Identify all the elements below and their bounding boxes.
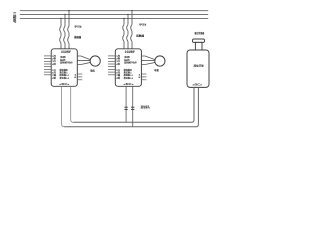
connector on probe wire 1 [124,107,127,109]
node: tap dots group 1 [60,10,69,19]
wire: U2 probe wire 1 [125,86,127,122]
svg-text:«DC»: «DC» [192,83,202,87]
wire: U2 probe wire 2 [132,86,134,126]
wire: bus line L1 [20,10,208,12]
breaker QF1 + contactor KM1 phase wires [60,11,69,49]
controller U2 spare right pins [141,74,146,80]
svg-text:液位探头: 液位探头 [141,104,150,109]
svg-text:空气开关: 空气开关 [75,25,82,29]
controller U1 left pins [44,56,51,75]
controller U2 left pins [108,56,115,75]
svg-text:液位传感器: 液位传感器 [194,31,204,35]
controller U2 box [115,49,141,87]
wire: U1 DC+ down to upper bus [71,86,74,122]
level sensor neck [195,42,202,50]
wire: U1 to motor M1 [77,56,90,65]
svg-text:«DC»: «DC» [59,82,70,86]
wire: lower bus to sensor [64,87,198,126]
node: tap dots group 2 [123,10,132,19]
controller U1 pin labels [52,54,78,80]
level sensor flange [193,39,205,42]
breaker QF2 + contactor KM2 phase wires [123,11,132,49]
controller U2 pin labels [116,54,142,80]
controller U1 box [51,49,77,87]
wire: U1 DC- down to lower bus [62,86,65,126]
level sensor tank body [187,50,209,87]
connector on probe wire 2 [131,107,134,109]
motor M2 [155,56,165,66]
wire: upper bus to sensor [73,87,194,122]
controller U1 spare right pins [77,74,82,80]
svg-text:«DC»: «DC» [123,82,134,86]
svg-text:接触器: 接触器 [73,35,82,39]
wire: U2 to motor M2 [141,56,155,65]
svg-text:液位浮球: 液位浮球 [194,63,205,67]
wire: bus line L2 [20,14,208,16]
wire: bus line L3 [20,18,208,20]
svg-text:接触器: 接触器 [135,34,144,38]
motor M1 [90,56,100,66]
svg-text:空气开关: 空气开关 [139,23,146,27]
